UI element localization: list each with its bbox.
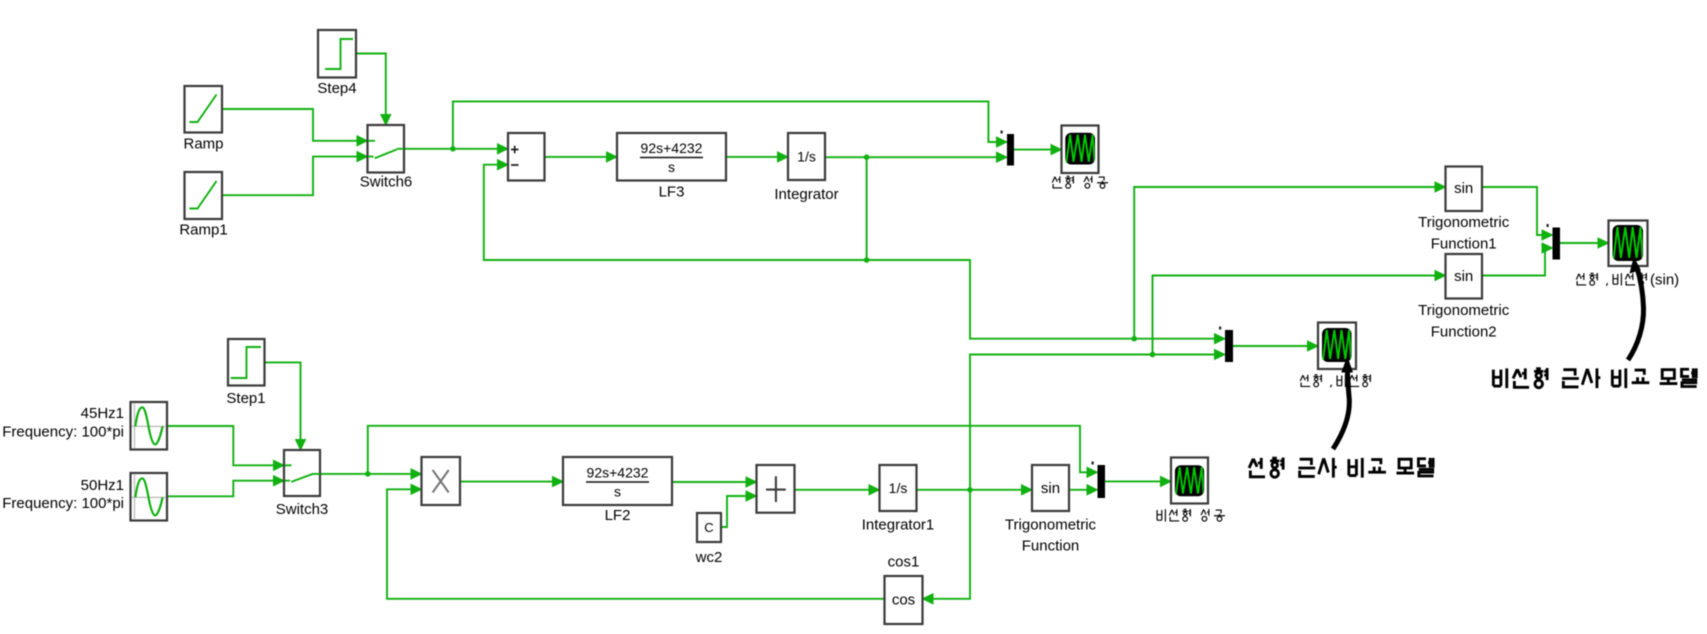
wire feedback Integrator to Sum minus	[484, 157, 867, 260]
node nonlinear branch junction	[1150, 352, 1156, 358]
wire Switch6 to Sum	[404, 148, 499, 150]
node feedback junction	[864, 257, 870, 263]
svg-text:wc2: wc2	[695, 549, 723, 566]
node Integrator out junction	[864, 154, 870, 160]
svg-text:Frequency: 100*pi: Frequency: 100*pi	[2, 495, 124, 512]
svg-text:Integrator1: Integrator1	[862, 517, 935, 534]
svg-text:LF2: LF2	[605, 507, 631, 524]
svg-text:1/s: 1/s	[889, 480, 908, 496]
svg-text:sin: sin	[1454, 180, 1473, 197]
svg-text:45Hz1: 45Hz1	[81, 405, 124, 422]
svg-text:Switch3: Switch3	[276, 501, 329, 518]
svg-text:cos1: cos1	[888, 554, 920, 571]
wire Mux2 to Scope3	[1233, 345, 1309, 347]
scope block Scope4	[1609, 221, 1648, 267]
wire Mux4 to Scope2	[1105, 480, 1162, 482]
svg-text:Ramp1: Ramp1	[179, 222, 227, 239]
wire LF2 to Sum2	[672, 481, 748, 483]
wire Integrator to Mux1 bottom	[825, 156, 998, 158]
wire cos1 feedback to Product	[387, 489, 885, 599]
wire Integrator1 branch to cos1	[931, 490, 970, 599]
wire LF3 to Integrator	[726, 156, 779, 158]
svg-text:LF3: LF3	[659, 184, 685, 201]
wire Integrator1 to Trigonometric Function	[917, 489, 1024, 491]
wire Trigonometric Function to Mux4 bottom	[1069, 489, 1089, 491]
integrator block Integrator1	[880, 465, 917, 511]
node Switch6 out junction	[450, 146, 456, 152]
svg-text:cos: cos	[892, 592, 915, 609]
product block Product	[422, 457, 461, 505]
integrator block Integrator	[788, 133, 825, 180]
label scope1 선형 성공	[1052, 176, 1108, 188]
transfer-function block LF2	[563, 457, 672, 505]
svg-text:Switch6: Switch6	[360, 174, 413, 191]
annotation 비선형 근사 비교 모델	[1493, 368, 1696, 388]
svg-text:Function1: Function1	[1431, 236, 1497, 253]
wire Switch3 branch to Mux4 top	[368, 426, 1089, 474]
mux Mux1	[1007, 134, 1014, 166]
label scope2 비선형 성공	[1157, 509, 1225, 521]
label scope4 선형, 비선형(sin)	[1576, 272, 1679, 289]
sum block Sum1	[508, 133, 545, 181]
mux Mux5	[1553, 228, 1561, 260]
trig block Trigonometric Function	[1032, 465, 1069, 511]
svg-text:C: C	[704, 520, 713, 535]
svg-text:Frequency: 100*pi: Frequency: 100*pi	[2, 424, 124, 441]
svg-text:Ramp: Ramp	[183, 136, 223, 153]
sine block 45Hz1	[131, 402, 168, 450]
ramp block Ramp	[185, 86, 223, 133]
wire Mux1 to Scope1	[1014, 149, 1053, 151]
svg-text:Trigonometric: Trigonometric	[1418, 214, 1510, 231]
annotation 선형 근사 비교 모델	[1249, 458, 1433, 478]
wire Sine50 to Switch3 in2	[167, 481, 276, 497]
wire Step4 to Switch6 control	[356, 54, 386, 118]
wire Switch6 junction to Mux1 top	[453, 101, 998, 148]
wire Ramp to Switch6 in1	[222, 109, 359, 141]
wire linear branch to Mux2 top	[867, 260, 1216, 339]
wire Sum to LF3	[545, 156, 609, 158]
svg-text:1/s: 1/s	[797, 149, 816, 165]
wire Step1 to Switch3 control	[265, 362, 301, 442]
svg-text:Step1: Step1	[226, 390, 265, 407]
label scope3 선형, 비선형	[1300, 375, 1370, 388]
cos block cos1	[885, 576, 923, 624]
mux Mux4	[1098, 465, 1106, 498]
arrow annotation to Scope3	[1333, 364, 1349, 449]
svg-text:sin: sin	[1041, 480, 1060, 497]
wire Switch3 to Product	[320, 473, 413, 475]
svg-text:sin: sin	[1454, 268, 1473, 285]
sine block 50Hz1	[131, 473, 168, 521]
ramp block Ramp1	[185, 172, 223, 219]
wire sin2 to Mux5 bottom	[1482, 248, 1547, 276]
svg-text:Function: Function	[1022, 538, 1080, 555]
svg-text:s: s	[614, 484, 621, 500]
svg-text:Integrator: Integrator	[774, 186, 838, 203]
node Switch3 out junction	[365, 471, 371, 477]
scope block Scope2	[1171, 458, 1208, 504]
svg-text:Step4: Step4	[317, 80, 356, 97]
switch block Switch3	[284, 450, 320, 496]
wire C to Sum2	[721, 496, 748, 527]
wire sin1 to Mux5 top	[1482, 187, 1543, 235]
node linear branch junction	[1131, 336, 1137, 342]
svg-text:Trigonometric: Trigonometric	[1418, 302, 1510, 319]
svg-text:50Hz1: 50Hz1	[81, 477, 124, 494]
constant block C	[697, 513, 721, 542]
transfer-function block LF3	[617, 133, 726, 181]
trig block Trigonometric Function1	[1446, 167, 1483, 212]
step block Step1	[228, 339, 265, 386]
svg-text:Trigonometric: Trigonometric	[1005, 517, 1097, 534]
arrow annotation to Scope4	[1628, 266, 1644, 360]
wire Sum2 to Integrator1	[795, 489, 871, 491]
node Integrator1 out junction	[967, 487, 973, 493]
switch block Switch6	[368, 125, 405, 173]
scope block Scope3	[1318, 323, 1356, 370]
sum block Sum2	[757, 465, 795, 513]
wire Product to LF2	[460, 481, 554, 483]
trig block Trigonometric Function2	[1446, 254, 1483, 299]
mux Mux2	[1225, 330, 1233, 362]
wire nonlinear branch to Mux2 bottom	[970, 355, 1216, 490]
scope block Scope1	[1062, 126, 1099, 174]
svg-text:Function2: Function2	[1431, 324, 1497, 341]
wire Sine45 to Switch3 in1	[167, 426, 276, 465]
wire Ramp1 to Switch6 in2	[222, 157, 359, 196]
svg-text:92s+4232: 92s+4232	[587, 465, 649, 481]
wire Mux5 to Scope4	[1560, 242, 1599, 244]
svg-text:(sin): (sin)	[1650, 272, 1679, 289]
wire linear branch to Trigonometric Function1	[1134, 187, 1436, 339]
svg-text:92s+4232: 92s+4232	[641, 140, 703, 156]
step block Step4	[318, 30, 356, 78]
wire nonlinear branch to Trigonometric Function2	[1153, 276, 1437, 355]
svg-text:s: s	[668, 159, 675, 175]
